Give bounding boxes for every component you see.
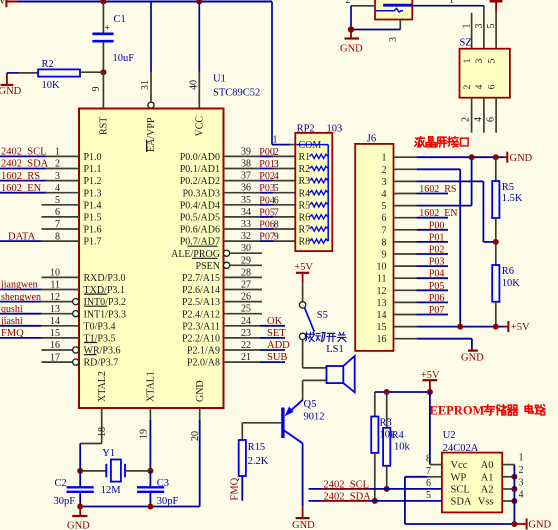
resistor R2 10K	[38, 69, 80, 76]
junction +5V row / R6	[493, 324, 499, 330]
junction ground run	[511, 521, 517, 527]
svg-text:VCC: VCC	[194, 116, 205, 137]
ground GND (J6 pin1 row)	[503, 156, 507, 158]
svg-text:P0.1/AD1: P0.1/AD1	[180, 164, 220, 175]
wire U1 pin 18 XTAL2	[101, 408, 103, 444]
wire U1 pin 7	[42, 228, 80, 230]
resistor R5 1.5K	[492, 181, 499, 218]
svg-text:INT1/P3.3: INT1/P3.3	[84, 309, 127, 320]
svg-text:P2.7/A15: P2.7/A15	[182, 273, 220, 284]
svg-text:P0.5/AD5: P0.5/AD5	[180, 213, 220, 224]
svg-text:GND: GND	[528, 520, 551, 530]
wire J6 pin 10	[394, 265, 418, 267]
svg-text:10K: 10K	[42, 80, 61, 91]
svg-text:15: 15	[50, 328, 60, 339]
wire J6 pin3 to contrast divider	[482, 181, 484, 242]
svg-text:P0.0/AD0: P0.0/AD0	[180, 152, 220, 163]
wire U1 pin 5	[42, 204, 80, 206]
svg-text:P07: P07	[429, 305, 445, 316]
wire U1 pin 17	[42, 361, 73, 363]
svg-text:7: 7	[426, 466, 431, 477]
wire U1 pin 12	[0, 301, 42, 303]
svg-text:EA/VPP: EA/VPP	[146, 117, 157, 152]
svg-text:WP: WP	[451, 472, 467, 483]
svg-text:P1.7: P1.7	[84, 237, 102, 248]
svg-text:R3: R3	[380, 418, 392, 429]
wire U1 pin 10	[42, 276, 80, 278]
svg-text:RXD/P3.0: RXD/P3.0	[84, 273, 126, 284]
svg-text:12: 12	[50, 292, 60, 303]
wire U1 pin 24	[224, 325, 261, 327]
svg-text:20: 20	[190, 431, 201, 441]
svg-text:GND: GND	[340, 44, 363, 55]
wire rail to VCC pin 40	[198, 2, 200, 73]
svg-text:+5V: +5V	[0, 0, 7, 7]
resistor R15 2.2K	[239, 440, 246, 476]
svg-text:3: 3	[474, 24, 485, 29]
svg-text:A0: A0	[481, 460, 494, 471]
junction +5V/R4	[384, 389, 390, 395]
svg-text:P2.1/A9: P2.1/A9	[187, 346, 220, 357]
svg-text:4: 4	[382, 189, 387, 200]
svg-text:29: 29	[241, 255, 251, 266]
svg-text:1602_EN: 1602_EN	[1, 183, 42, 194]
wire J6 pin 7	[394, 229, 418, 231]
svg-text:23: 23	[241, 328, 251, 339]
transistor Q5 9012	[289, 400, 303, 413]
wire SZ pin 3	[483, 6, 485, 49]
wire +5V to switch S5	[302, 283, 304, 302]
node contrast divider junction	[493, 239, 499, 245]
wire rail to RP2 COM pin 1	[271, 2, 273, 145]
svg-text:P1.4: P1.4	[84, 200, 102, 211]
junction R4/SCL	[384, 486, 390, 492]
inversion bubble pin 16	[73, 347, 79, 353]
svg-text:LS1: LS1	[326, 344, 344, 355]
svg-text:jiangwen: jiangwen	[0, 280, 38, 291]
svg-text:14: 14	[377, 310, 387, 321]
wire R5 to divider node	[495, 218, 497, 242]
svg-text:P06: P06	[259, 220, 275, 231]
wire J6 pin 13	[394, 301, 418, 303]
wire U1 pin 39 to RP2	[224, 155, 261, 157]
svg-text:R4: R4	[392, 430, 405, 441]
wire U1 pin 16	[42, 349, 73, 351]
svg-text:SUB: SUB	[267, 352, 287, 363]
wire U1 pin 2	[0, 168, 46, 170]
svg-text:37: 37	[241, 171, 251, 182]
svg-text:1602_RS: 1602_RS	[419, 184, 456, 195]
svg-text:2: 2	[55, 159, 60, 170]
svg-text:18: 18	[97, 427, 108, 437]
svg-text:P1.1: P1.1	[84, 164, 102, 175]
svg-text:34: 34	[241, 207, 251, 218]
svg-text:+5V: +5V	[511, 322, 530, 333]
wire J6 pin 15	[394, 326, 418, 328]
ground GND (EEPROM)	[514, 523, 526, 525]
svg-text:6: 6	[382, 213, 387, 224]
svg-text:2.2K: 2.2K	[248, 456, 269, 467]
wire U1 pin 21	[224, 361, 261, 363]
svg-text:P2.4/A12: P2.4/A12	[182, 309, 220, 320]
wire J6 pin 16	[394, 338, 418, 340]
svg-text:P04: P04	[259, 195, 275, 206]
wire U1 pin 1	[0, 155, 46, 157]
junction R3/SDA	[372, 498, 378, 504]
svg-text:10uF: 10uF	[113, 53, 135, 64]
svg-text:P05: P05	[259, 207, 275, 218]
wire J6 pin 3	[394, 180, 418, 182]
svg-text:OK: OK	[267, 316, 283, 327]
wire +5V rail to pullups	[375, 391, 430, 393]
ground GND (switch)	[350, 30, 352, 39]
overbar INT0	[84, 293, 108, 295]
svg-text:1: 1	[463, 58, 473, 63]
svg-text:31: 31	[140, 80, 151, 90]
wire SCL bus	[309, 488, 442, 490]
svg-text:R6: R6	[502, 266, 514, 277]
wire rail to C1	[102, 2, 104, 34]
svg-text:R4: R4	[299, 188, 311, 199]
wire divider node to R6	[495, 242, 497, 265]
svg-text:1602_EN: 1602_EN	[419, 208, 457, 219]
wire SZ pin 6	[495, 98, 497, 133]
svg-text:2: 2	[519, 465, 524, 476]
svg-text:30pF: 30pF	[157, 496, 179, 507]
svg-text:P00: P00	[259, 147, 275, 158]
junction GND row / R5	[493, 154, 499, 160]
slide switch (top, cropped)	[375, 0, 412, 20]
wire U1 pin 35 to RP2	[224, 204, 261, 206]
svg-text:R3: R3	[299, 176, 311, 187]
wire U1 pin 27	[224, 289, 263, 291]
svg-text:5: 5	[487, 58, 497, 63]
svg-text:C2: C2	[55, 478, 67, 489]
overbar WR	[84, 342, 97, 344]
svg-text:12M: 12M	[101, 485, 122, 496]
svg-text:5: 5	[382, 201, 387, 212]
svg-text:P2.5/A13: P2.5/A13	[182, 297, 220, 308]
svg-text:FMQ: FMQ	[229, 477, 240, 500]
wire J6 pin 14	[394, 314, 418, 316]
svg-text:4: 4	[473, 117, 484, 122]
svg-text:2402_SCL: 2402_SCL	[1, 147, 47, 158]
wire U1 pin 34 to RP2	[224, 216, 261, 218]
svg-text:P1.6: P1.6	[84, 225, 102, 236]
svg-text:25: 25	[241, 304, 251, 315]
inversion bubble pin 12	[73, 299, 79, 305]
svg-text:36: 36	[241, 183, 251, 194]
capacitor C3 30pF	[149, 471, 151, 487]
wire U1 pin 14	[0, 325, 42, 327]
svg-text:21: 21	[241, 352, 251, 363]
svg-text:5: 5	[486, 24, 497, 29]
wire ground run (xtal)	[80, 506, 200, 508]
wire speaker to Q5 emitter	[303, 379, 327, 381]
svg-text:14: 14	[50, 316, 60, 327]
wire U1 pin 20 GND	[199, 408, 201, 421]
svg-text:P03: P03	[429, 257, 445, 268]
svg-text:P1.0: P1.0	[84, 152, 102, 163]
svg-text:DATA: DATA	[8, 231, 36, 242]
junction J6 pin2/+5V	[457, 324, 463, 330]
switch S5 (toggle)	[299, 302, 305, 308]
wire U1 pin 11	[0, 289, 42, 291]
svg-text:2: 2	[274, 147, 279, 158]
svg-text:9: 9	[382, 250, 387, 261]
svg-text:3: 3	[274, 159, 279, 170]
svg-text:R8: R8	[299, 237, 311, 248]
wire pin3 to gnd node	[351, 29, 400, 31]
svg-text:32: 32	[241, 231, 251, 242]
svg-text:P0.3AD3: P0.3AD3	[182, 188, 220, 199]
svg-text:R7: R7	[299, 225, 311, 236]
svg-text:GND: GND	[0, 86, 22, 97]
svg-text:28: 28	[241, 267, 251, 278]
svg-text:19: 19	[138, 429, 149, 439]
svg-text:GND: GND	[461, 353, 484, 364]
wire SZ pin 2	[471, 98, 473, 133]
svg-text:P01: P01	[259, 159, 275, 170]
wire J6 pin 11	[394, 277, 418, 279]
svg-text:1: 1	[55, 147, 60, 158]
RP2 COM row	[296, 144, 328, 146]
svg-text:1: 1	[273, 135, 278, 146]
svg-text:24: 24	[241, 316, 251, 327]
junction at switch ground node	[348, 26, 354, 32]
inversion bubble pin 17	[73, 359, 79, 365]
junction on rail at VCC column	[196, 0, 202, 5]
wire R6 to +5V row	[495, 302, 497, 327]
wire J6 pin2 to +5V row	[459, 169, 461, 326]
svg-text:11: 11	[50, 280, 60, 291]
wire U1 pin 36 to RP2	[224, 192, 261, 194]
wire U1 pin 13	[0, 313, 42, 315]
svg-text:P02: P02	[259, 171, 275, 182]
resistor R6 10K	[492, 265, 499, 302]
wire R2 to junction	[80, 71, 103, 73]
svg-text:13: 13	[50, 304, 60, 315]
svg-text:STC89C52: STC89C52	[213, 88, 260, 99]
svg-text:GND: GND	[67, 521, 90, 530]
svg-text:Vss: Vss	[478, 497, 494, 508]
wire R15 to FMQ stub	[241, 476, 243, 501]
wire J6 pin 9	[394, 253, 418, 255]
junction XTAL1 node	[147, 468, 153, 474]
svg-text:6: 6	[486, 117, 497, 122]
wire U1 pin 25	[224, 313, 263, 315]
wire U2 WP pin 7 to ground loop	[426, 476, 442, 478]
svg-text:2: 2	[382, 165, 387, 176]
svg-text:R5: R5	[502, 182, 514, 193]
svg-text:9: 9	[274, 232, 279, 243]
svg-text:2402_SDA: 2402_SDA	[1, 159, 49, 170]
junction on rail at RST column	[100, 0, 106, 5]
svg-text:P0.4/AD4: P0.4/AD4	[180, 200, 220, 211]
wire junction to RST pin 9	[102, 72, 104, 108]
wire J6 pin16 to ground	[471, 339, 473, 347]
capacitor C2 30pF	[79, 471, 81, 487]
svg-text:8: 8	[55, 231, 60, 242]
wire U1 pin 26	[224, 301, 263, 303]
svg-text:SDA: SDA	[451, 497, 472, 508]
wire to R3	[374, 392, 376, 417]
overbar PSEN	[192, 257, 218, 259]
wire U1 pin 19 XTAL1	[149, 408, 151, 421]
svg-text:6: 6	[55, 207, 60, 218]
wire U2 right column to ground	[513, 465, 515, 524]
svg-text:EEPROM: EEPROM	[430, 404, 485, 418]
svg-text:S5: S5	[317, 310, 328, 321]
wire to R4	[386, 392, 388, 428]
wire SDA bus	[309, 500, 442, 502]
wire bottom ground run	[405, 523, 515, 525]
svg-text:P1.2: P1.2	[84, 176, 102, 187]
svg-text:P04: P04	[429, 269, 445, 280]
wire J6 pin 5	[394, 205, 418, 207]
speaker LS1	[327, 366, 344, 383]
svg-text:R2: R2	[299, 164, 311, 175]
svg-text:jiashi: jiashi	[0, 316, 23, 327]
svg-text:1602_RS: 1602_RS	[1, 171, 40, 182]
ground GND (Q5)	[296, 517, 310, 519]
svg-text:39: 39	[241, 146, 251, 157]
svg-text:7: 7	[55, 219, 60, 230]
inversion bubble pin 13	[73, 311, 79, 317]
svg-text:1: 1	[382, 153, 387, 164]
svg-text:P01: P01	[429, 232, 445, 243]
svg-text:SCL: SCL	[451, 485, 470, 496]
svg-text:R5: R5	[299, 200, 311, 211]
svg-text:ADD: ADD	[267, 340, 290, 351]
svg-text:A2: A2	[481, 485, 494, 496]
wire S5 to speaker	[302, 340, 304, 368]
svg-text:RST: RST	[98, 117, 109, 135]
resistor R3 10k	[371, 417, 378, 453]
svg-text:R6: R6	[299, 213, 311, 224]
svg-text:13: 13	[377, 298, 387, 309]
svg-text:30pF: 30pF	[54, 496, 76, 507]
wire J6 pin 6	[394, 217, 418, 219]
svg-text:6: 6	[487, 84, 497, 89]
wire R4 to SCL	[386, 466, 388, 489]
wire U1 pin 33 to RP2	[224, 228, 261, 230]
power +5V rail (top)	[5, 0, 7, 7]
wire U1 pin 22	[224, 349, 261, 351]
svg-text:6: 6	[426, 478, 431, 489]
wire U1 pin 3	[0, 180, 46, 182]
wire J6 pin 4	[394, 193, 418, 195]
svg-text:U1: U1	[213, 74, 226, 85]
svg-text:10K: 10K	[502, 278, 521, 289]
wire R3 to SDA	[374, 453, 376, 501]
svg-text:P0.2/AD2: P0.2/AD2	[180, 176, 220, 187]
wire J6 pin 8	[394, 241, 418, 243]
svg-text:30: 30	[241, 243, 251, 254]
svg-text:XTAL2: XTAL2	[97, 371, 108, 402]
overbar RD	[84, 354, 97, 356]
svg-text:R15: R15	[248, 442, 266, 453]
svg-text:26: 26	[241, 292, 251, 303]
wire U1 pin 32 to RP2	[224, 240, 261, 242]
junction GND row / pin5 column	[469, 154, 475, 160]
svg-text:C3: C3	[157, 478, 169, 489]
svg-text:9012: 9012	[304, 412, 325, 423]
svg-text:17: 17	[50, 352, 60, 363]
wire switch pin2 down to gnd node	[350, 6, 352, 30]
svg-text:P05: P05	[429, 281, 445, 292]
capacitor C1	[92, 32, 113, 35]
svg-text:P2.3/A11: P2.3/A11	[182, 321, 220, 332]
inversion bubble EA/VPP	[148, 102, 154, 108]
wire rail to EA/VPP pin 31	[150, 2, 152, 73]
svg-text:4: 4	[55, 183, 60, 194]
svg-text:SZ: SZ	[460, 38, 472, 49]
svg-text:3: 3	[519, 478, 524, 489]
svg-text:5: 5	[426, 490, 431, 501]
power +5V (J6 pin15 row)	[503, 326, 508, 328]
svg-text:35: 35	[241, 195, 251, 206]
resistor R4 10k	[383, 428, 390, 466]
svg-text:8: 8	[382, 237, 387, 248]
label toggle switch (bo dong kai guan)	[305, 332, 314, 341]
svg-text:P03: P03	[259, 183, 275, 194]
svg-text:GND: GND	[195, 380, 206, 402]
svg-text:XTAL1: XTAL1	[146, 371, 157, 402]
svg-text:4: 4	[274, 171, 279, 182]
svg-text:T0/P3.4: T0/P3.4	[84, 321, 116, 332]
svg-text:P1.5: P1.5	[84, 213, 102, 224]
wire Q5 base to R15	[242, 422, 281, 424]
svg-text:16: 16	[50, 340, 60, 351]
svg-text:9: 9	[91, 87, 102, 92]
svg-text:1.5K: 1.5K	[502, 193, 523, 204]
svg-text:10: 10	[377, 262, 387, 273]
wire C1 to RST node	[102, 42, 104, 72]
wire U1 pin 29	[224, 262, 230, 268]
svg-text:3: 3	[382, 177, 387, 188]
svg-text:2: 2	[346, 0, 351, 6]
junction C2/ground	[77, 504, 83, 510]
svg-text:10k: 10k	[394, 442, 411, 453]
svg-text:GND: GND	[292, 520, 315, 530]
wire U1 pin 23	[224, 337, 261, 339]
svg-text:R1: R1	[299, 152, 311, 163]
svg-text:11: 11	[377, 274, 387, 285]
svg-text:27: 27	[241, 280, 251, 291]
svg-text:3: 3	[55, 171, 60, 182]
svg-text:P06: P06	[429, 293, 445, 304]
ground GND (J6 pin16)	[468, 350, 478, 352]
wire gnd row to R5	[495, 157, 497, 181]
wire U2 Vss pin 4	[502, 500, 514, 502]
wire U1 pin 4	[0, 192, 46, 194]
svg-text:1: 1	[519, 453, 524, 464]
overbar PROG	[188, 245, 218, 247]
svg-text:2: 2	[461, 117, 472, 122]
svg-text:U2: U2	[443, 430, 456, 441]
junction +5V stem	[427, 389, 433, 395]
svg-text:qushi: qushi	[1, 304, 23, 315]
svg-text:C1: C1	[114, 14, 126, 25]
node RST/C1/R2 junction	[100, 69, 106, 75]
wire SZ pin 4	[483, 98, 485, 133]
svg-text:Vcc: Vcc	[451, 460, 468, 471]
svg-text:12: 12	[377, 286, 387, 297]
wire Q5 collector to ground	[302, 443, 304, 507]
svg-text:4: 4	[519, 490, 524, 501]
ground GND (left of R2)	[6, 73, 8, 85]
